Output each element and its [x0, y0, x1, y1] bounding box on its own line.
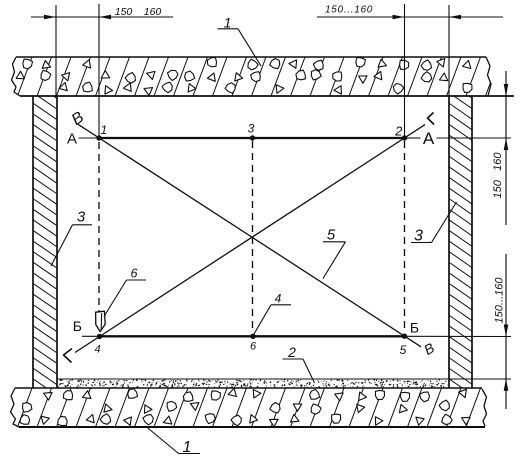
left jamb right edge	[56, 96, 58, 388]
bottom slab right break edge	[482, 389, 487, 426]
svg-text:3: 3	[248, 122, 255, 136]
svg-text:А: А	[67, 130, 77, 147]
svg-text:Б: Б	[73, 318, 82, 334]
top slab left break edge	[12, 57, 21, 96]
right jamb right edge	[471, 96, 473, 388]
dashed vertical through points 1-4	[98, 142, 100, 333]
scribe/pencil icon at point 4	[96, 311, 106, 331]
left jamb left edge	[32, 96, 34, 388]
svg-text:6: 6	[131, 267, 138, 281]
top slab bottom edge + right extension tick	[20, 95, 514, 97]
right jamb left edge	[448, 96, 450, 388]
extension line at jamb face x=449	[448, 5, 450, 96]
aggregate stones bottom slab	[23, 403, 32, 413]
marking point 6	[250, 334, 255, 339]
svg-text:150 160: 150 160	[492, 152, 504, 199]
svg-text:6: 6	[250, 341, 257, 353]
bottom slab left break edge	[11, 388, 20, 427]
section mark G bottom-left	[64, 349, 73, 363]
svg-text:150...160: 150...160	[494, 277, 506, 324]
right vertical dimension line (lower 150...160)	[505, 254, 507, 409]
marking line A-A right extension to label	[405, 137, 421, 139]
marking point 1	[96, 135, 101, 140]
marking line B-B thick (points 4-6-5)	[100, 335, 405, 337]
section mark G top-right	[428, 113, 435, 125]
diagonal cord 2-4 (G-G)	[75, 125, 425, 353]
svg-text:3: 3	[414, 227, 423, 244]
svg-text:150...160: 150...160	[325, 4, 373, 15]
svg-text:160: 160	[144, 6, 162, 18]
top-left dimension line 150...160	[31, 16, 173, 18]
marking point 3	[250, 135, 255, 140]
aggregate stones top slab	[16, 71, 24, 79]
svg-text:4: 4	[94, 344, 100, 356]
marking point 2	[402, 135, 407, 140]
bottom slab bottom edge	[19, 426, 485, 428]
marking line A-A thin left segment	[79, 137, 100, 139]
extension line at jamb face x=56	[55, 5, 57, 96]
dashed vertical through points 3-6	[252, 141, 254, 332]
svg-text:5: 5	[327, 226, 336, 243]
extension line at marking line x=404.5	[404, 4, 406, 138]
svg-text:3: 3	[77, 209, 86, 226]
top-right dimension line 150...160	[317, 16, 503, 18]
sill line over mortar bed, extended right as dimension tick	[57, 378, 511, 380]
svg-text:2: 2	[394, 124, 403, 139]
brick hatch right jamb	[449, 82, 472, 98]
concrete hatch bottom slab	[0, 388, 13, 427]
svg-text:4: 4	[275, 291, 282, 305]
extension line at marking line x=99	[98, 4, 100, 138]
svg-text:5: 5	[400, 343, 407, 357]
mortar screed band (item 2)	[58, 379, 448, 388]
top slab right break edge	[486, 57, 491, 96]
marking line A-A thick (points 1-3-2)	[99, 137, 405, 139]
marking line A-A extension through right jamb to dim line	[437, 137, 512, 139]
diagonal cord 1-5 (V-V)	[78, 124, 421, 346]
marking line B-B thin left segment	[82, 335, 100, 337]
svg-text:2: 2	[287, 344, 296, 360]
concrete hatch top slab	[0, 57, 13, 96]
right vertical dimension line (upper 150...160)	[505, 71, 507, 225]
dashed vertical through points 2-5	[404, 141, 406, 332]
svg-text:1: 1	[100, 123, 107, 137]
marking point 5	[402, 334, 407, 339]
top slab top edge	[16, 56, 486, 58]
marking line B-B extension through right jamb to dim line	[405, 335, 512, 337]
svg-text:А: А	[423, 129, 435, 148]
brick hatch left jamb	[33, 82, 57, 99]
bottom slab top edge	[15, 387, 482, 389]
svg-text:1: 1	[224, 14, 232, 30]
svg-text:150: 150	[115, 6, 133, 18]
svg-text:Б: Б	[410, 319, 419, 335]
marking point 4	[97, 334, 102, 339]
